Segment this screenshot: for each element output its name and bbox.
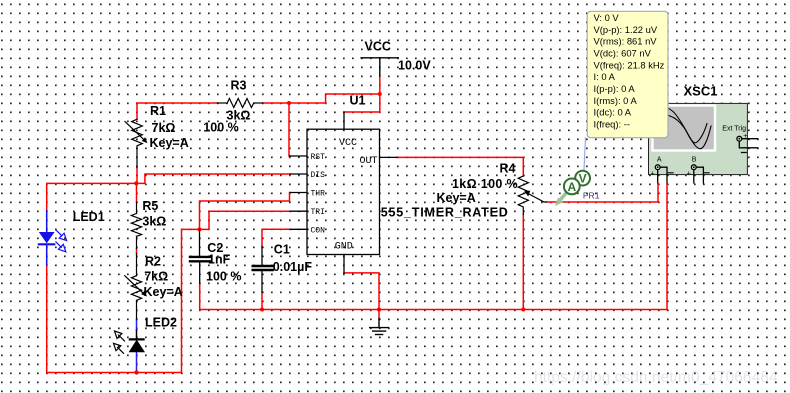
scope terminal B (691, 165, 696, 170)
svg-text:Key=A: Key=A (437, 191, 476, 205)
wire CON to C1 (262, 229, 290, 246)
wire TRI to C2 (200, 211, 291, 229)
scope terminal A (655, 165, 660, 170)
svg-text:XSC1: XSC1 (684, 84, 718, 99)
svg-text:THR: THR (311, 190, 326, 199)
svg-text:1nF: 1nF (208, 252, 231, 266)
wire OUT to R4 (397, 157, 523, 176)
scope terminal Ext Trig (737, 136, 742, 141)
svg-text:RST: RST (311, 153, 326, 162)
svg-text:7kΩ: 7kΩ (152, 121, 176, 135)
capacitor C1 (253, 247, 273, 293)
svg-text:B: B (692, 156, 697, 163)
wire R3 node down to RST (289, 103, 291, 156)
svg-text:A: A (567, 180, 576, 194)
VCC power symbol (361, 58, 398, 76)
svg-text:V(p-p): 1.22 uV: V(p-p): 1.22 uV (594, 24, 658, 35)
oscilloscope XSC1 (649, 103, 758, 183)
svg-text:Key=A: Key=A (150, 136, 189, 150)
svg-text:V(dc): 607 nV: V(dc): 607 nV (594, 47, 652, 58)
wire VCC top (344, 76, 380, 112)
wire LED1 bottom loop to C2 node (47, 229, 200, 372)
svg-text:10.0V: 10.0V (398, 59, 431, 73)
svg-text:R3: R3 (231, 79, 247, 93)
potentiometer R2 (125, 254, 144, 320)
svg-text:PR1: PR1 (583, 190, 600, 200)
wire THR to C2 (200, 193, 291, 230)
svg-text:TRI: TRI (311, 208, 325, 217)
capacitor C2 (190, 229, 211, 283)
resistor R3 (horizontal) (217, 99, 262, 108)
svg-text:I(freq): --: I(freq): -- (594, 119, 630, 130)
wire LED2 bottom to bus (136, 352, 138, 372)
svg-text:Ext Trig: Ext Trig (722, 126, 746, 133)
LED2 (black) (114, 330, 144, 353)
svg-text:R1: R1 (150, 104, 166, 118)
wire GND pin to bus (344, 273, 379, 319)
svg-text:LED1: LED1 (73, 210, 105, 224)
svg-text:I(p-p): 0 A: I(p-p): 0 A (594, 83, 636, 94)
svg-text:CON: CON (311, 226, 326, 235)
wire scope A- down to ground bus (666, 184, 668, 310)
wire node A left to LED1 (47, 183, 137, 211)
svg-text:LED2: LED2 (145, 316, 177, 330)
wire R4 bottom to bus (522, 215, 524, 310)
wire scope A+ to PR1/R4 wiper (547, 184, 659, 203)
svg-text:DIS: DIS (311, 171, 326, 180)
svg-text:V(rms): 861 nV: V(rms): 861 nV (594, 36, 658, 47)
svg-text:I: 0 A: I: 0 A (594, 71, 616, 82)
svg-text:A: A (657, 156, 662, 163)
wire R1 bottom to node A (135, 168, 138, 185)
svg-text:+: + (687, 171, 691, 178)
wire R5-R2 link (136, 249, 138, 254)
wire ground bus (262, 309, 667, 311)
wire node A to DIS (136, 174, 290, 183)
svg-text:R5: R5 (142, 199, 158, 213)
svg-text:0.01µF: 0.01µF (273, 260, 313, 274)
wire R5 top (136, 183, 138, 202)
yellow probe tooltip box (584, 11, 668, 170)
svg-text:555_TIMER_RATED: 555_TIMER_RATED (381, 206, 509, 220)
svg-text:GND: GND (335, 241, 353, 252)
svg-text:V: 0 V: V: 0 V (594, 12, 620, 23)
svg-text:I(dc): 0 A: I(dc): 0 A (594, 107, 632, 118)
wire LED2 top blue segment (136, 319, 138, 330)
wire R1 top to R3 (137, 103, 217, 119)
svg-text:VCC: VCC (365, 40, 391, 54)
svg-text:C1: C1 (274, 242, 290, 256)
svg-text:R4: R4 (500, 162, 516, 176)
svg-text:7kΩ: 7kΩ (144, 270, 168, 284)
ground (370, 319, 389, 335)
potentiometer R1 (125, 119, 144, 167)
svg-text:1kΩ 100 %: 1kΩ 100 % (452, 177, 518, 191)
555 timer U1 (290, 112, 397, 273)
svg-text:100 %: 100 % (206, 270, 241, 284)
svg-text:+: + (651, 171, 655, 178)
wire C2 bottom to ground bus (200, 283, 262, 309)
svg-text:I(rms): 0 A: I(rms): 0 A (594, 95, 638, 106)
potentiometer R4 (518, 176, 546, 215)
scope pin wires (658, 139, 758, 184)
wire VCC junction to R3 node (289, 94, 380, 103)
node junction dots (378, 92, 382, 96)
svg-text:V(freq): 21.8 kHz: V(freq): 21.8 kHz (594, 59, 665, 70)
LED1 (blue) (39, 211, 67, 265)
svg-text:3kΩ: 3kΩ (142, 214, 166, 228)
svg-text:R2: R2 (145, 254, 161, 268)
svg-text:100 %: 100 % (203, 120, 238, 134)
svg-text:U1: U1 (350, 93, 366, 107)
wire C1 bottom (261, 292, 263, 309)
svg-text:OUT: OUT (360, 156, 378, 167)
wire R3 right (263, 102, 289, 104)
resistor R5 (131, 202, 141, 249)
svg-text:VCC: VCC (339, 138, 357, 149)
svg-text:Key=A: Key=A (144, 285, 183, 299)
probe PR1 (555, 171, 600, 206)
